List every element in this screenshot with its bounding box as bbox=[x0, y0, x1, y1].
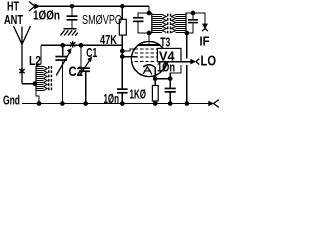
svg-text:IF: IF bbox=[200, 33, 210, 48]
svg-text:1Øn: 1Øn bbox=[157, 59, 175, 74]
svg-text:L2: L2 bbox=[29, 53, 41, 68]
svg-text:C1: C1 bbox=[86, 45, 97, 60]
svg-text:C2: C2 bbox=[69, 63, 84, 79]
svg-text:1KØ: 1KØ bbox=[130, 86, 147, 101]
svg-text:ANT: ANT bbox=[4, 12, 23, 27]
svg-text:47K: 47K bbox=[100, 32, 117, 47]
svg-text:1Øn: 1Øn bbox=[104, 91, 120, 106]
svg-text:LO: LO bbox=[201, 54, 217, 70]
svg-text:Gnd: Gnd bbox=[3, 93, 20, 108]
svg-text:1ØØn: 1ØØn bbox=[33, 8, 60, 23]
svg-text:T3: T3 bbox=[160, 34, 170, 49]
svg-text:SMØVPO: SMØVPO bbox=[82, 12, 122, 27]
